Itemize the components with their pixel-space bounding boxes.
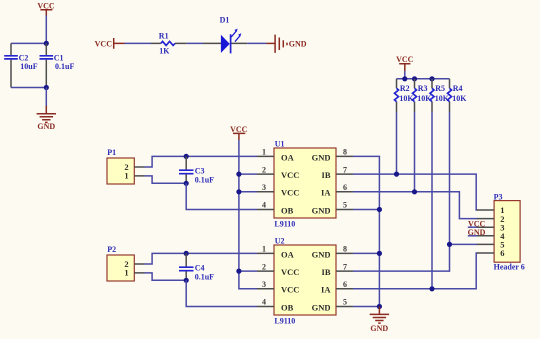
svg-text:10K: 10K bbox=[435, 94, 450, 103]
svg-text:VCC: VCC bbox=[281, 267, 299, 277]
wire U2 pin6 IA to P3 pin6 bbox=[353, 253, 478, 289]
junction GND bus / U2 pin8 bbox=[377, 251, 382, 256]
wire resistor top rail bbox=[397, 78, 450, 80]
ground symbol (LED branch, right) bbox=[266, 35, 306, 53]
connector P1 bbox=[107, 148, 145, 184]
junction rail at VCC stem bbox=[402, 76, 407, 81]
wire P1 pin1 to bottom rail bbox=[145, 176, 187, 183]
resistor R4 10K bbox=[448, 79, 468, 112]
capacitor C3 0.1uF bbox=[179, 156, 214, 184]
svg-text:6: 6 bbox=[343, 280, 347, 289]
svg-text:2: 2 bbox=[262, 262, 266, 271]
svg-text:1: 1 bbox=[124, 171, 128, 181]
wire VCC to R1 bbox=[125, 42, 152, 44]
svg-text:GND: GND bbox=[312, 205, 331, 215]
junction VCC feed / U1 pin 3 bbox=[236, 189, 241, 194]
svg-text:2: 2 bbox=[262, 165, 266, 174]
wire VCC stem to resistor rail bbox=[404, 71, 406, 79]
wire top rail C2-C1 bbox=[11, 42, 46, 44]
svg-text:8: 8 bbox=[343, 148, 347, 157]
capacitor C2 10uF bbox=[4, 43, 38, 87]
wire bottom rail C2-C1 bbox=[11, 87, 46, 89]
svg-text:OA: OA bbox=[281, 152, 295, 162]
svg-text:L9110: L9110 bbox=[274, 317, 295, 326]
resistor R3 10K bbox=[413, 79, 433, 112]
wire R1 to D1 bbox=[187, 42, 203, 44]
junction R3 column / U1 IA bbox=[412, 189, 417, 194]
wire P2 pin1 to bottom rail bbox=[145, 273, 187, 280]
power VCC symbol (above pull-up resistors) bbox=[396, 55, 414, 71]
power VCC symbol (above U1) bbox=[230, 125, 248, 140]
resistor R5 10K bbox=[430, 79, 450, 112]
junction VCC feed / U2 pin 2 bbox=[236, 269, 241, 274]
wire U1 pin7 IB to P3 pin1 bbox=[353, 174, 478, 210]
ground symbol (bottom GND bus) bbox=[370, 307, 389, 334]
svg-text:10K: 10K bbox=[452, 94, 467, 103]
svg-text:0.1uF: 0.1uF bbox=[195, 175, 214, 184]
svg-text:L9110: L9110 bbox=[274, 220, 295, 229]
junction R5 column / U2 IA bbox=[429, 286, 434, 291]
svg-text:OA: OA bbox=[281, 249, 295, 259]
svg-text:0.1uF: 0.1uF bbox=[195, 272, 214, 281]
svg-text:1K: 1K bbox=[159, 46, 170, 55]
svg-text:GND: GND bbox=[37, 122, 55, 131]
wire R2 to U1 IB row bbox=[396, 112, 398, 174]
junction R4 column / P3 pin5 bbox=[447, 242, 452, 247]
svg-text:VCC: VCC bbox=[281, 188, 299, 198]
junction top rail at C1 bbox=[44, 41, 49, 46]
svg-text:4: 4 bbox=[262, 201, 266, 210]
svg-text:OB: OB bbox=[281, 302, 294, 312]
svg-text:C4: C4 bbox=[195, 263, 205, 272]
wire branch to U2 pin 2 bbox=[239, 270, 257, 272]
svg-text:0.1uF: 0.1uF bbox=[55, 62, 74, 71]
svg-text:IB: IB bbox=[322, 267, 331, 277]
svg-text:1: 1 bbox=[262, 148, 266, 157]
wire branch to U1 pin 3 bbox=[239, 191, 257, 193]
svg-text:6: 6 bbox=[500, 248, 504, 258]
op-amp U1 L9110 motor driver bbox=[257, 140, 353, 229]
resistor R1 1K bbox=[151, 32, 187, 56]
junction C3 top bbox=[184, 154, 189, 159]
svg-text:R4: R4 bbox=[453, 84, 463, 93]
svg-text:OB: OB bbox=[281, 205, 294, 215]
svg-text:VCC: VCC bbox=[95, 39, 113, 48]
svg-text:D1: D1 bbox=[220, 16, 230, 25]
svg-text:P2: P2 bbox=[107, 245, 116, 254]
wire VCC vertical feed to U1/U2 VCC pins bbox=[239, 140, 257, 289]
junction GND bus / U1 pin5 bbox=[377, 207, 382, 212]
power VCC symbol (LED branch, left) bbox=[95, 38, 125, 49]
junction rail at R3 bbox=[412, 76, 417, 81]
svg-text:GND: GND bbox=[289, 40, 307, 49]
svg-text:R5: R5 bbox=[435, 84, 445, 93]
wire C3 bottom to U1 pin 4 bbox=[186, 183, 257, 209]
svg-text:IA: IA bbox=[321, 285, 331, 295]
svg-text:GND: GND bbox=[370, 324, 388, 333]
svg-text:6: 6 bbox=[343, 183, 347, 192]
junction VCC feed / U1 pin 2 bbox=[236, 172, 241, 177]
svg-text:GND: GND bbox=[312, 302, 331, 312]
junction GND bus / U2 pin5 bbox=[377, 304, 382, 309]
junction R2 column / U1 IB bbox=[394, 172, 399, 177]
wire C4 bottom to U2 pin 4 bbox=[186, 280, 257, 306]
wire R5 to U2 IA row bbox=[431, 112, 433, 289]
svg-text:R1: R1 bbox=[159, 32, 169, 41]
wire R3 to U1 IA row bbox=[414, 112, 416, 192]
wire down to ground bbox=[45, 88, 47, 107]
svg-text:VCC: VCC bbox=[281, 285, 299, 295]
svg-text:IB: IB bbox=[322, 170, 331, 180]
net label GND at P3 pin4 bbox=[468, 228, 486, 237]
svg-text:5: 5 bbox=[343, 201, 347, 210]
svg-text:VCC: VCC bbox=[281, 170, 299, 180]
capacitor C4 0.1uF bbox=[179, 253, 214, 281]
svg-text:GND: GND bbox=[312, 152, 331, 162]
wire GND bus: U1 pin8 down to bottom ground bbox=[353, 156, 379, 307]
svg-text:Header 6: Header 6 bbox=[494, 263, 525, 272]
svg-text:U2: U2 bbox=[275, 237, 285, 246]
wire VCC stem down to cap rail bbox=[45, 16, 47, 44]
svg-text:P1: P1 bbox=[107, 148, 116, 157]
wire U1 pin5 to GND bus bbox=[353, 209, 379, 211]
resistor R2 10K bbox=[395, 79, 415, 112]
wire U2 pin8 to GND bus bbox=[353, 252, 379, 254]
junction C3 bottom bbox=[184, 181, 189, 186]
svg-text:R3: R3 bbox=[418, 84, 428, 93]
wire R4 down through P3 pin5 to U2 IB row bbox=[353, 112, 450, 271]
wire D1 to ground bbox=[247, 42, 266, 44]
svg-text:4: 4 bbox=[262, 298, 266, 307]
svg-text:3: 3 bbox=[262, 280, 266, 289]
svg-text:U1: U1 bbox=[275, 140, 285, 149]
capacitor C1 0.1uF bbox=[40, 43, 75, 87]
svg-text:VCC: VCC bbox=[230, 125, 248, 134]
ground symbol (top-left section) bbox=[37, 106, 56, 132]
svg-text:GND: GND bbox=[312, 249, 331, 259]
svg-text:5: 5 bbox=[343, 298, 347, 307]
svg-text:10K: 10K bbox=[399, 94, 414, 103]
svg-text:7: 7 bbox=[343, 262, 347, 271]
wire U2 pin5 to GND bus bbox=[353, 306, 379, 308]
wire R4 branch to P3 pin5 bbox=[450, 243, 478, 245]
connector P3 Header 6 bbox=[477, 192, 525, 271]
svg-text:VCC: VCC bbox=[396, 55, 414, 64]
junction C4 top bbox=[184, 251, 189, 256]
wire P2 pin2 to top rail bbox=[145, 253, 258, 264]
connector P2 bbox=[107, 245, 145, 281]
svg-text:3: 3 bbox=[262, 183, 266, 192]
net label VCC at P3 pin3 bbox=[468, 219, 486, 228]
svg-text:8: 8 bbox=[343, 245, 347, 254]
svg-text:10K: 10K bbox=[417, 94, 432, 103]
wire P1 pin2 to top rail bbox=[145, 156, 258, 167]
wire U1 pin6 IA to P3 pin2 bbox=[353, 192, 478, 219]
svg-text:C3: C3 bbox=[195, 166, 205, 175]
junction rail at R5 bbox=[429, 76, 434, 81]
op-amp U2 L9110 motor driver bbox=[257, 237, 353, 326]
svg-text:7: 7 bbox=[343, 165, 347, 174]
svg-text:10uF: 10uF bbox=[20, 62, 37, 71]
junction bottom rail at C1 bbox=[44, 85, 49, 90]
svg-text:R2: R2 bbox=[400, 84, 410, 93]
svg-text:IA: IA bbox=[321, 188, 331, 198]
power VCC symbol (top-left decoupling section) bbox=[37, 2, 55, 16]
junction C4 bottom bbox=[184, 278, 189, 283]
svg-text:1: 1 bbox=[124, 268, 128, 278]
wire branch to U1 pin 2 bbox=[239, 173, 257, 175]
svg-text:1: 1 bbox=[262, 245, 266, 254]
LED D1 bbox=[203, 16, 247, 54]
